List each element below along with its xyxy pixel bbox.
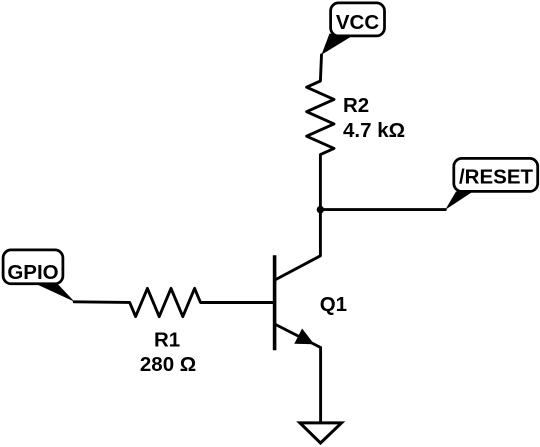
- svg-text:VCC: VCC: [336, 11, 379, 34]
- svg-text:Q1: Q1: [320, 293, 347, 316]
- svg-text:4.7 kΩ: 4.7 kΩ: [343, 119, 405, 142]
- svg-text:GPIO: GPIO: [7, 261, 58, 284]
- svg-text:R2: R2: [343, 94, 369, 117]
- svg-text:/RESET: /RESET: [459, 166, 534, 189]
- svg-text:R1: R1: [154, 329, 180, 352]
- svg-text:280 Ω: 280 Ω: [140, 353, 196, 376]
